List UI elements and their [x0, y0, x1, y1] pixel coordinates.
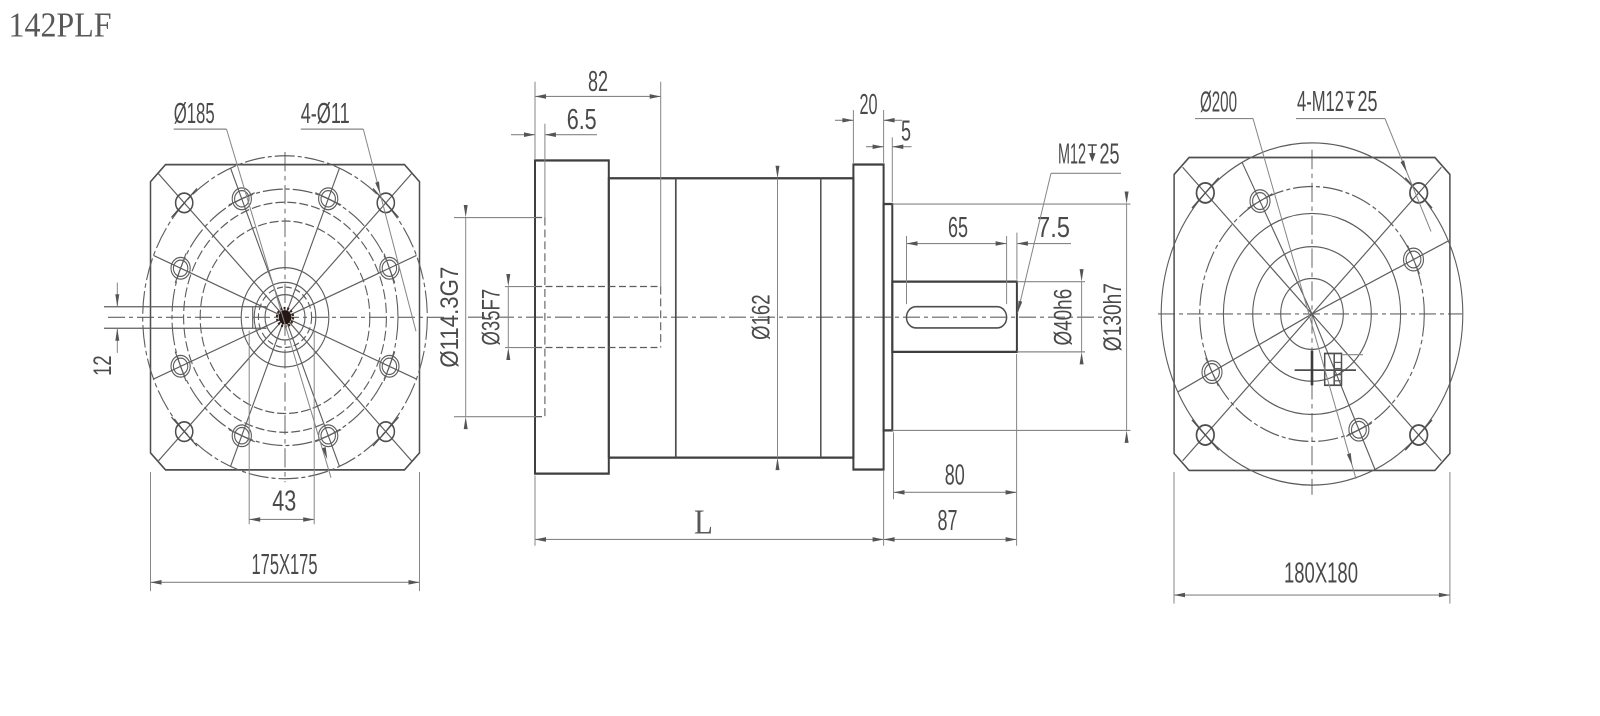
right outer circle D200 [1161, 143, 1463, 485]
right 4 tapped holes M12 [1202, 190, 1424, 441]
right keyway divider [1333, 353, 1335, 385]
left pilot circle D130 hidden [184, 202, 387, 432]
dimension L extension line [534, 475, 536, 545]
svg-text:25: 25 [1100, 138, 1120, 170]
dimension D130h7 extension lines [892, 203, 1130, 205]
dimension 87 [884, 538, 1017, 540]
right keyway depth line [1295, 369, 1356, 371]
right keyway detail rectangle [1325, 353, 1342, 385]
right circle 3 [1281, 278, 1344, 349]
svg-text:20: 20 [860, 89, 878, 121]
svg-text:43: 43 [272, 485, 296, 517]
right flange square outline 180X180 [1174, 157, 1450, 470]
hidden input bore D35 bottom [535, 347, 661, 349]
left view horizontal centerline [108, 316, 447, 318]
output pilot ring D130h7 [884, 204, 893, 430]
dimension D114.3G7 [465, 218, 467, 417]
dimension 20 extension lines [852, 110, 854, 163]
input flange pilot recess edge hidden [544, 218, 546, 417]
middle axis centerline [468, 316, 1105, 318]
dimension 43 [249, 518, 314, 520]
dimension 43 extension lines [248, 331, 250, 524]
dimension 20 [835, 119, 853, 121]
svg-text:82: 82 [588, 65, 608, 97]
dimension 80 [894, 491, 1017, 493]
svg-text:6.5: 6.5 [567, 103, 597, 135]
dimension D114.3G7 extension lines [454, 217, 535, 219]
svg-text:Ø114.3G7: Ø114.3G7 [435, 267, 463, 368]
left circle D40 output shaft projection [254, 282, 316, 352]
svg-text:80: 80 [945, 459, 965, 491]
left circle D60 [241, 268, 329, 367]
dimension 12 [116, 283, 118, 307]
dimension 80 extension lines [893, 432, 895, 499]
left keyway bottom [252, 307, 254, 329]
dimension 65 extension lines [906, 236, 908, 304]
input flange section [535, 160, 609, 473]
body ring line 4 [820, 178, 822, 457]
dimension D162 [777, 178, 779, 457]
dimension D35F7 [507, 287, 509, 348]
left flange square outline 175X175 [151, 165, 420, 470]
svg-text:M12: M12 [1058, 138, 1086, 170]
dimension 7.5 [1017, 243, 1071, 245]
right radial spokes [1178, 162, 1449, 469]
gearbox body section [609, 178, 854, 457]
dimension D40h6 [1081, 282, 1083, 352]
dimension 82 extension lines [534, 82, 536, 159]
right view vertical centerline [1311, 150, 1313, 495]
dimension L [535, 538, 884, 540]
left 8 tapped holes M12 [171, 188, 399, 447]
left circle D35 bore hidden [258, 287, 311, 347]
svg-text:Ø40h6: Ø40h6 [1049, 289, 1077, 346]
svg-text:175X175: 175X175 [251, 548, 317, 580]
output shaft D40h6 [892, 282, 1017, 352]
left view vertical centerline [284, 152, 286, 482]
svg-text:Ø162: Ø162 [747, 294, 775, 339]
svg-text:Ø35F7: Ø35F7 [477, 289, 505, 346]
svg-text:Ø200: Ø200 [1200, 86, 1237, 118]
dimension D40h6 extension lines [1017, 281, 1085, 283]
svg-text:87: 87 [937, 504, 957, 536]
left pilot circle D114.3 hidden [200, 221, 370, 413]
right keyway side tick [1342, 354, 1364, 356]
left 4 corner holes D11 [172, 188, 399, 446]
svg-text:65: 65 [948, 212, 968, 244]
bore end hidden edge [660, 287, 662, 348]
right 4 corner holes [1192, 178, 1432, 451]
body ring line [675, 178, 677, 457]
dimension 6.5 [511, 134, 535, 136]
svg-text:Ø185: Ø185 [174, 98, 215, 130]
right circle 1 [1223, 213, 1400, 414]
output flange section 20 [853, 165, 883, 470]
dimension 175X175 extension lines [150, 472, 152, 591]
right bolt circle 4-M12 [1200, 187, 1425, 442]
svg-text:12: 12 [89, 355, 117, 375]
dimension D35F7 extension lines [505, 286, 535, 288]
svg-text:4-M12: 4-M12 [1297, 85, 1344, 117]
dimension 82 [535, 95, 661, 97]
svg-text:5: 5 [901, 115, 911, 147]
left bolt circle D185 [143, 156, 428, 479]
output shaft keyway slot 65 [907, 307, 1007, 328]
svg-text:7.5: 7.5 [1037, 212, 1070, 244]
left radial spokes [154, 168, 417, 466]
dimension D130h7 [1126, 204, 1128, 430]
dimension 180X180 extension lines [1173, 472, 1175, 604]
svg-text:Ø130h7: Ø130h7 [1099, 283, 1127, 351]
svg-text:25: 25 [1358, 85, 1378, 117]
left keyway slot lines width 12 [104, 306, 267, 308]
hidden input pilot recess D114.3 [535, 217, 545, 219]
right circle 2 [1253, 247, 1372, 382]
left input pinion hub [279, 310, 292, 324]
dimension 180X180 [1174, 594, 1450, 596]
left bolt circle 8 holes [172, 189, 398, 445]
dimension 175X175 [151, 581, 420, 583]
dimension 87 extension line [883, 471, 885, 546]
left circle sun gear tip [265, 295, 305, 340]
svg-text:142PLF: 142PLF [9, 6, 112, 45]
svg-text:L: L [694, 503, 713, 542]
dimension 65 [907, 243, 1007, 245]
dimension 5 [866, 146, 884, 148]
right view horizontal centerline [1158, 313, 1462, 315]
right keyway slot bold line [1311, 351, 1314, 386]
right keyway hatch [1334, 362, 1341, 380]
svg-text:4-Ø11: 4-Ø11 [301, 98, 350, 130]
hidden input bore D35 top [535, 286, 661, 288]
svg-text:180X180: 180X180 [1284, 557, 1358, 589]
